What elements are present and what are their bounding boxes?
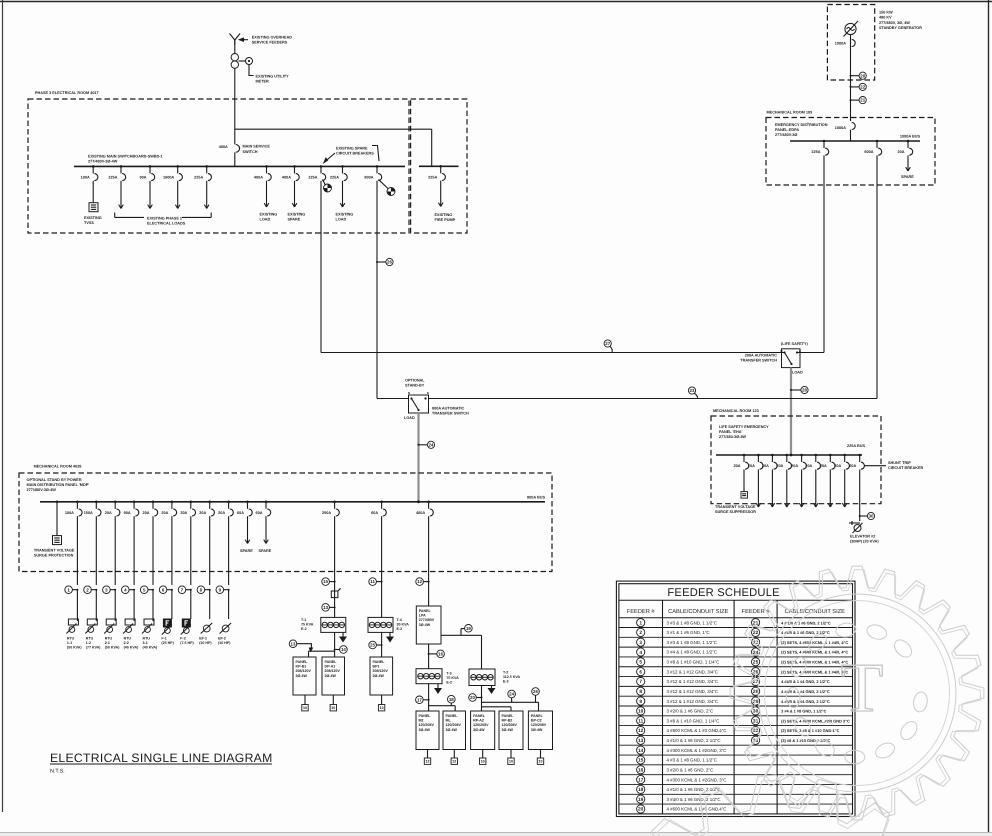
svg-text:20A: 20A xyxy=(105,511,112,515)
svg-text:27: 27 xyxy=(753,679,759,685)
svg-text:112.5 KVA: 112.5 KVA xyxy=(503,675,521,679)
svg-text:20A: 20A xyxy=(898,150,905,154)
svg-text:30 KVA: 30 KVA xyxy=(397,623,410,627)
svg-text:22: 22 xyxy=(753,630,759,636)
svg-text:18: 18 xyxy=(638,787,644,793)
svg-text:SERVICE FEEDERS: SERVICE FEEDERS xyxy=(252,41,288,45)
svg-text:30: 30 xyxy=(869,514,874,519)
svg-text:4: 4 xyxy=(639,650,642,656)
svg-text:400A: 400A xyxy=(254,176,263,180)
svg-text:1-2: 1-2 xyxy=(86,641,91,645)
svg-text:17: 17 xyxy=(638,777,644,783)
svg-text:TRANSFER SWITCH: TRANSFER SWITCH xyxy=(740,359,777,363)
svg-text:7: 7 xyxy=(181,587,184,592)
svg-text:20A: 20A xyxy=(161,511,168,515)
svg-text:MECHANICAL ROOM 123: MECHANICAL ROOM 123 xyxy=(713,409,759,413)
svg-text:208/120V: 208/120V xyxy=(325,669,341,673)
svg-text:90A: 90A xyxy=(124,511,131,515)
svg-text:OPTIONAL STAND BY POWER: OPTIONAL STAND BY POWER xyxy=(27,478,82,482)
svg-text:T-1: T-1 xyxy=(301,618,306,622)
svg-text:LIFE SAFETY EMERGENCY: LIFE SAFETY EMERGENCY xyxy=(719,425,769,429)
svg-text:PANEL: PANEL xyxy=(502,714,515,718)
svg-text:E-2: E-2 xyxy=(397,627,403,631)
svg-text:MECHANICAL ROOM 109: MECHANICAL ROOM 109 xyxy=(767,111,813,115)
svg-text:(2) SETS, 4 #600 KCML,#2/0 GND: (2) SETS, 4 #600 KCML,#2/0 GND 3"C xyxy=(781,718,850,723)
svg-text:3Ø-4W: 3Ø-4W xyxy=(419,623,431,627)
svg-text:20A: 20A xyxy=(834,464,841,468)
svg-text:17: 17 xyxy=(417,697,422,702)
svg-text:3Ø-4W: 3Ø-4W xyxy=(373,674,385,678)
svg-text:BP1: BP1 xyxy=(373,665,380,669)
svg-text:OPTIONAL: OPTIONAL xyxy=(405,379,425,383)
svg-text:EXISTING OVERHEAD: EXISTING OVERHEAD xyxy=(252,36,293,40)
svg-text:10: 10 xyxy=(331,706,335,710)
svg-text:800A: 800A xyxy=(364,176,373,180)
svg-text:(30HP) (20 KVA): (30HP) (20 KVA) xyxy=(850,540,879,544)
svg-text:EXISTING UTILITY: EXISTING UTILITY xyxy=(256,75,290,79)
svg-text:CIRCUIT BREAKERS: CIRCUIT BREAKERS xyxy=(336,152,374,156)
svg-text:4: 4 xyxy=(124,587,127,592)
svg-text:PANEL: PANEL xyxy=(419,714,432,718)
svg-text:20A: 20A xyxy=(199,511,206,515)
svg-text:(40 KVA): (40 KVA) xyxy=(124,646,140,650)
svg-text:SWITCH: SWITCH xyxy=(243,150,258,154)
svg-text:STANDBY GENERATOR: STANDBY GENERATOR xyxy=(879,26,922,30)
svg-text:(10 HP): (10 HP) xyxy=(218,641,231,645)
svg-text:20A: 20A xyxy=(776,464,783,468)
svg-text:ELECTRICAL SINGLE LINE DIAG: ELECTRICAL SINGLE LINE DIAGRAM xyxy=(50,751,273,765)
svg-text:F-1: F-1 xyxy=(161,637,166,641)
svg-text:EXISTING PHASE 1: EXISTING PHASE 1 xyxy=(147,217,182,221)
svg-text:T-3: T-3 xyxy=(446,672,451,676)
svg-text:20: 20 xyxy=(860,73,865,78)
svg-text:F-2: F-2 xyxy=(180,637,185,641)
svg-text:3Ø-4W: 3Ø-4W xyxy=(296,674,308,678)
svg-text:800A BUS: 800A BUS xyxy=(527,496,545,500)
svg-text:RTU: RTU xyxy=(86,637,94,641)
svg-text:28: 28 xyxy=(802,388,807,393)
svg-text:24: 24 xyxy=(509,692,514,697)
svg-text:SPARE: SPARE xyxy=(901,175,914,179)
svg-text:11: 11 xyxy=(638,718,643,724)
svg-text:3: 3 xyxy=(105,587,108,592)
svg-text:225A BUS: 225A BUS xyxy=(847,444,865,448)
svg-text:TVSS: TVSS xyxy=(84,221,94,225)
svg-text:10: 10 xyxy=(638,709,644,715)
svg-text:8: 8 xyxy=(200,587,203,592)
svg-text:CABLE/CONDUIT SIZE: CABLE/CONDUIT SIZE xyxy=(668,608,728,615)
svg-text:3 #3 & 1 #8 GND, 1 1/2"C: 3 #3 & 1 #8 GND, 1 1/2"C xyxy=(667,640,717,645)
svg-text:20A: 20A xyxy=(218,511,225,515)
svg-text:RP-A2: RP-A2 xyxy=(473,719,484,723)
svg-text:75 KVA: 75 KVA xyxy=(446,676,459,680)
svg-text:120/208V: 120/208V xyxy=(473,723,489,727)
svg-text:3 #12 & 1 #12 GND, 3/4"C: 3 #12 & 1 #12 GND, 3/4"C xyxy=(667,669,719,674)
svg-text:14: 14 xyxy=(341,647,346,652)
svg-text:E: E xyxy=(427,391,429,395)
svg-text:PANEL: PANEL xyxy=(325,660,338,664)
svg-text:150A: 150A xyxy=(84,511,93,515)
svg-text:22: 22 xyxy=(860,84,865,89)
svg-text:200A AUTOMATIC: 200A AUTOMATIC xyxy=(745,354,778,358)
svg-text:3Ø-4W: 3Ø-4W xyxy=(446,728,458,732)
svg-text:225A: 225A xyxy=(108,176,117,180)
svg-text:EXISTING: EXISTING xyxy=(260,213,278,217)
svg-text:225A: 225A xyxy=(811,150,820,154)
svg-text:60A: 60A xyxy=(371,511,378,515)
svg-text:EF-1: EF-1 xyxy=(199,637,207,641)
svg-text:60A: 60A xyxy=(256,511,263,515)
svg-text:RTU: RTU xyxy=(124,637,132,641)
svg-text:1000A BUS: 1000A BUS xyxy=(900,135,921,139)
svg-text:12: 12 xyxy=(426,760,430,764)
svg-text:75 KVA: 75 KVA xyxy=(301,623,314,627)
svg-text:(2) SETS, 4 #600 KCML & 1 #4/0: (2) SETS, 4 #600 KCML & 1 #4/0, 4"C xyxy=(781,660,848,665)
svg-text:N: N xyxy=(780,349,782,353)
svg-text:3 #8 & 1 #10 GND, 1 1/4"C: 3 #8 & 1 #10 GND, 1 1/4"C xyxy=(667,660,720,665)
svg-text:(10 HP): (10 HP) xyxy=(199,641,212,645)
svg-text:RTU: RTU xyxy=(143,637,151,641)
svg-text:10: 10 xyxy=(380,706,384,710)
svg-text:13: 13 xyxy=(291,641,296,646)
svg-text:PANEL: PANEL xyxy=(296,660,309,664)
svg-text:4 #1/0 & 1 #6 GND, 2 1/2"C: 4 #1/0 & 1 #6 GND, 2 1/2"C xyxy=(667,738,721,743)
svg-text:13: 13 xyxy=(638,738,644,744)
svg-text:EF-2: EF-2 xyxy=(218,637,226,641)
svg-text:EXISTING SPARE: EXISTING SPARE xyxy=(336,147,368,151)
svg-text:TRANSFER SWITCH: TRANSFER SWITCH xyxy=(432,412,469,416)
svg-text:LOAD: LOAD xyxy=(404,416,415,420)
svg-text:(40 KVA): (40 KVA) xyxy=(143,646,159,650)
svg-text:3Ø-4W: 3Ø-4W xyxy=(325,674,337,678)
svg-text:3Ø-4W: 3Ø-4W xyxy=(419,728,431,732)
svg-text:10: 10 xyxy=(481,760,485,764)
svg-text:3 #12 & 1 #12 GND, 3/4"C: 3 #12 & 1 #12 GND, 3/4"C xyxy=(667,699,719,704)
svg-text:31: 31 xyxy=(753,718,759,724)
svg-text:RP-B2: RP-B2 xyxy=(502,719,513,723)
svg-text:1000A: 1000A xyxy=(835,126,846,130)
svg-text:SURGE SUPPRESSOR: SURGE SUPPRESSOR xyxy=(715,510,756,514)
svg-text:3 #12 & 1 #12 GND, 3/4"C: 3 #12 & 1 #12 GND, 3/4"C xyxy=(667,689,719,694)
svg-text:3Ø-4W: 3Ø-4W xyxy=(502,728,514,732)
svg-text:4 #300 KCML & 1 #2GND, 3"C: 4 #300 KCML & 1 #2GND, 3"C xyxy=(667,748,727,753)
svg-text:10: 10 xyxy=(303,706,307,710)
svg-text:225A: 225A xyxy=(308,176,317,180)
svg-text:5: 5 xyxy=(143,587,146,592)
svg-text:3Ø-4W: 3Ø-4W xyxy=(473,728,485,732)
svg-text:2: 2 xyxy=(86,587,89,592)
svg-text:150 KW: 150 KW xyxy=(879,11,893,15)
svg-text:N: N xyxy=(408,391,410,395)
svg-text:4 #1/0 & 1 #6 GND, 2 1/2"C: 4 #1/0 & 1 #6 GND, 2 1/2"C xyxy=(667,787,721,792)
svg-text:277/480V-3Ø: 277/480V-3Ø xyxy=(775,133,797,137)
svg-text:E-2: E-2 xyxy=(503,680,509,684)
svg-text:EXISTING MAIN SWITCHBOARD-SWBD: EXISTING MAIN SWITCHBOARD-SWBD-1 xyxy=(88,155,163,159)
svg-text:208/120V: 208/120V xyxy=(296,669,312,673)
svg-text:ELECTRICAL LOADS: ELECTRICAL LOADS xyxy=(147,222,186,226)
svg-text:2-2: 2-2 xyxy=(124,641,129,645)
svg-text:9: 9 xyxy=(639,699,642,705)
svg-text:LPA: LPA xyxy=(419,614,426,618)
svg-text:20A: 20A xyxy=(180,511,187,515)
svg-text:208/120V: 208/120V xyxy=(373,669,389,673)
svg-text:11: 11 xyxy=(370,579,375,584)
svg-text:FEEDER #: FEEDER # xyxy=(627,609,656,615)
svg-text:(7.5 HP): (7.5 HP) xyxy=(180,641,194,645)
svg-text:4 #300 KCML & 1 #2GND, 3"C: 4 #300 KCML & 1 #2GND, 3"C xyxy=(667,777,727,782)
svg-text:225A: 225A xyxy=(194,176,203,180)
svg-text:PHASE 3 ELECTRICAL ROOM 4017: PHASE 3 ELECTRICAL ROOM 4017 xyxy=(35,91,99,95)
svg-text:3 #4/0 & 1 #6 GND, 2 1/2"C: 3 #4/0 & 1 #6 GND, 2 1/2"C xyxy=(667,797,721,802)
svg-text:1: 1 xyxy=(67,587,70,592)
svg-text:13: 13 xyxy=(323,605,328,610)
svg-text:10: 10 xyxy=(509,760,513,764)
svg-text:T: T xyxy=(841,650,884,727)
svg-text:26: 26 xyxy=(533,689,538,694)
svg-text:8: 8 xyxy=(639,689,642,695)
svg-text:RTU: RTU xyxy=(67,637,75,641)
svg-text:FEEDER SCHEDULE: FEEDER SCHEDULE xyxy=(667,587,779,599)
svg-text:SPARE: SPARE xyxy=(240,549,253,553)
svg-text:20A: 20A xyxy=(762,464,769,468)
svg-text:30: 30 xyxy=(753,709,759,715)
svg-text:SHUNT TRIP: SHUNT TRIP xyxy=(888,461,911,465)
svg-text:3 #2/0 & 1 #6 GND, 2"C: 3 #2/0 & 1 #6 GND, 2"C xyxy=(667,709,714,714)
svg-text:277/480V-3Ø-4W: 277/480V-3Ø-4W xyxy=(27,488,57,492)
svg-text:3 #8 & 1 #10 GND, 1 1/4"C: 3 #8 & 1 #10 GND, 1 1/4"C xyxy=(667,718,720,723)
svg-text:800A AUTOMATIC: 800A AUTOMATIC xyxy=(432,407,465,411)
svg-text:12: 12 xyxy=(417,579,422,584)
svg-text:15: 15 xyxy=(323,579,328,584)
svg-text:MAIN SERVICE: MAIN SERVICE xyxy=(243,144,271,148)
svg-text:FIRE PUMP: FIRE PUMP xyxy=(435,218,456,222)
svg-text:EMERGENCY DISTRIBUTION: EMERGENCY DISTRIBUTION xyxy=(775,123,828,127)
svg-text:9: 9 xyxy=(219,587,222,592)
svg-text:120/208V: 120/208V xyxy=(502,723,518,727)
svg-text:(25 HP): (25 HP) xyxy=(161,641,174,645)
svg-text:ELEVATOR #2: ELEVATOR #2 xyxy=(850,535,875,539)
svg-text:1: 1 xyxy=(639,620,642,626)
svg-text:3 #12 & 1 #12 GND, 3/4"C: 3 #12 & 1 #12 GND, 3/4"C xyxy=(667,679,719,684)
svg-text:E-2: E-2 xyxy=(301,627,307,631)
svg-text:21: 21 xyxy=(860,98,865,103)
svg-text:60A: 60A xyxy=(237,511,244,515)
svg-text:EXISTING: EXISTING xyxy=(84,216,102,220)
svg-text:T-2: T-2 xyxy=(503,671,508,675)
svg-text:400A: 400A xyxy=(416,511,425,515)
svg-text:15: 15 xyxy=(638,758,644,764)
svg-text:METER: METER xyxy=(256,80,270,84)
svg-text:4 #600 KCML & 1 #3 GND,4"C: 4 #600 KCML & 1 #3 GND,4"C xyxy=(667,807,727,812)
svg-text:3 #4 & 1 #8 GND, 1 1/2"C: 3 #4 & 1 #8 GND, 1 1/2"C xyxy=(667,650,717,655)
svg-text:6: 6 xyxy=(639,669,642,675)
svg-text:PANEL: PANEL xyxy=(373,660,386,664)
svg-text:100A: 100A xyxy=(81,176,90,180)
svg-text:BP-C2: BP-C2 xyxy=(531,719,542,723)
svg-text:480 KV: 480 KV xyxy=(879,16,892,20)
svg-text:225A: 225A xyxy=(428,176,437,180)
svg-text:ML: ML xyxy=(446,719,452,723)
svg-text:120/208V: 120/208V xyxy=(419,723,435,727)
svg-text:400A: 400A xyxy=(282,176,291,180)
svg-text:20A: 20A xyxy=(805,464,812,468)
svg-text:60A: 60A xyxy=(849,464,856,468)
svg-text:250A: 250A xyxy=(322,511,331,515)
svg-text:225A: 225A xyxy=(330,176,339,180)
svg-text:10: 10 xyxy=(539,760,543,764)
svg-text:16: 16 xyxy=(638,767,644,773)
svg-text:120/208V: 120/208V xyxy=(446,723,462,727)
svg-text:PANEL-EDPA: PANEL-EDPA xyxy=(775,128,799,132)
svg-text:TRANSIENT VOLTAGE: TRANSIENT VOLTAGE xyxy=(34,549,75,553)
svg-text:(2) SETS, 4 #600 KCML & 1 #4/0: (2) SETS, 4 #600 KCML & 1 #4/0, 4"C xyxy=(781,640,848,645)
svg-text:TRANSIENT VOLTAGE: TRANSIENT VOLTAGE xyxy=(715,505,756,509)
svg-text:23: 23 xyxy=(690,388,695,393)
svg-text:PANEL: PANEL xyxy=(473,714,486,718)
svg-text:26: 26 xyxy=(387,260,392,265)
svg-text:20: 20 xyxy=(638,807,644,813)
svg-text:90A: 90A xyxy=(140,176,147,180)
svg-text:M2: M2 xyxy=(419,719,424,723)
svg-text:(50 KVA): (50 KVA) xyxy=(105,646,121,650)
svg-text:E-2: E-2 xyxy=(446,681,452,685)
svg-text:MAIN DISTRIBUTION PANEL 'MDP': MAIN DISTRIBUTION PANEL 'MDP' xyxy=(27,483,90,487)
svg-text:STAND-BY: STAND-BY xyxy=(405,384,425,388)
svg-text:3 #4 & 1 #8 GND, 1 1/2"C: 3 #4 & 1 #8 GND, 1 1/2"C xyxy=(781,709,827,714)
svg-text:25: 25 xyxy=(370,643,375,648)
svg-text:12: 12 xyxy=(452,760,456,764)
svg-text:KP-B1: KP-B1 xyxy=(296,665,307,669)
svg-text:20A: 20A xyxy=(734,464,741,468)
svg-text:4 #4/0 & 1 #4 GND, 2 1/2"C: 4 #4/0 & 1 #4 GND, 2 1/2"C xyxy=(781,679,830,684)
svg-text:25: 25 xyxy=(753,660,759,666)
svg-text:2-1: 2-1 xyxy=(105,641,110,645)
svg-text:1-1: 1-1 xyxy=(67,641,72,645)
svg-text:4 #4/0 & 1 #4 GND, 2 1/2"C: 4 #4/0 & 1 #4 GND, 2 1/2"C xyxy=(781,699,830,704)
svg-text:LOAD: LOAD xyxy=(336,218,347,222)
svg-text:400A: 400A xyxy=(219,145,228,149)
svg-text:SPARE: SPARE xyxy=(259,549,272,553)
svg-text:3 #1 & 1 #6 GND, 1"C: 3 #1 & 1 #6 GND, 1"C xyxy=(667,630,710,635)
svg-text:3Ø-4W: 3Ø-4W xyxy=(531,728,543,732)
svg-text:7: 7 xyxy=(639,679,642,685)
svg-text:19: 19 xyxy=(466,626,471,631)
svg-text:3 #2/0 & 1 #6 GND, 2"C: 3 #2/0 & 1 #6 GND, 2"C xyxy=(667,767,714,772)
svg-text:(LIFE SAFETY): (LIFE SAFETY) xyxy=(781,342,809,346)
svg-text:1600A: 1600A xyxy=(163,176,174,180)
svg-text:(77 KVA): (77 KVA) xyxy=(86,646,102,650)
svg-text:20A: 20A xyxy=(791,464,798,468)
svg-text:1000A: 1000A xyxy=(835,42,846,46)
svg-text:EXISTING: EXISTING xyxy=(435,213,453,217)
svg-text:5: 5 xyxy=(639,660,642,666)
svg-text:16: 16 xyxy=(438,651,443,656)
svg-text:T-4: T-4 xyxy=(397,618,402,622)
svg-text:3 #3 & 1 #8 GND, 1 1/2"C: 3 #3 & 1 #8 GND, 1 1/2"C xyxy=(667,620,717,625)
svg-text:LOAD: LOAD xyxy=(792,371,803,375)
svg-text:277/480V-3Ø-4W: 277/480V-3Ø-4W xyxy=(88,160,118,164)
svg-text:20A: 20A xyxy=(748,464,755,468)
svg-text:277/480V, 3Ø, 4W: 277/480V, 3Ø, 4W xyxy=(879,21,910,25)
svg-text:PANEL 'EHA': PANEL 'EHA' xyxy=(719,430,742,434)
svg-text:20A: 20A xyxy=(820,464,827,468)
svg-text:RTU: RTU xyxy=(105,637,113,641)
svg-text:19: 19 xyxy=(638,797,644,803)
svg-text:4 #600 KCML & 1 #3 GND,4"C: 4 #600 KCML & 1 #3 GND,4"C xyxy=(667,728,727,733)
svg-text:100A: 100A xyxy=(65,511,74,515)
svg-text:2: 2 xyxy=(639,630,642,636)
svg-text:(50 KVA): (50 KVA) xyxy=(67,646,83,650)
svg-text:277/480-3Ø-4W: 277/480-3Ø-4W xyxy=(719,435,746,439)
svg-text:MECHANICAL ROOM 4028: MECHANICAL ROOM 4028 xyxy=(34,465,82,469)
svg-text:N.T.S.: N.T.S. xyxy=(50,769,65,775)
svg-text:EXISTING: EXISTING xyxy=(336,213,354,217)
svg-text:EXISTING: EXISTING xyxy=(288,213,306,217)
svg-text:SPARE: SPARE xyxy=(288,218,301,222)
svg-text:CIRCUIT BREAKER: CIRCUIT BREAKER xyxy=(888,466,923,470)
svg-text:PANEL: PANEL xyxy=(531,714,544,718)
svg-text:3-1: 3-1 xyxy=(143,641,148,645)
svg-text:4 #3 & 1 #8 GND, 1 1/2"C: 4 #3 & 1 #8 GND, 1 1/2"C xyxy=(667,758,717,763)
svg-text:DP-A1: DP-A1 xyxy=(325,665,336,669)
svg-text:20: 20 xyxy=(470,695,475,700)
svg-text:24: 24 xyxy=(429,442,434,447)
svg-text:20A: 20A xyxy=(143,511,150,515)
svg-text:PANEL: PANEL xyxy=(446,714,459,718)
svg-text:18: 18 xyxy=(449,697,454,702)
svg-text:14: 14 xyxy=(638,748,644,754)
svg-text:SURGE PROTECTION: SURGE PROTECTION xyxy=(34,554,74,558)
svg-text:600A: 600A xyxy=(864,150,873,154)
svg-text:LOAD: LOAD xyxy=(260,218,271,222)
svg-text:277/480V: 277/480V xyxy=(419,618,435,622)
svg-text:12: 12 xyxy=(638,728,644,734)
svg-text:PANEL: PANEL xyxy=(419,609,432,613)
svg-text:120/208V: 120/208V xyxy=(531,723,547,727)
svg-text:3: 3 xyxy=(639,640,642,646)
svg-text:6: 6 xyxy=(162,587,165,592)
svg-text:27: 27 xyxy=(605,341,610,346)
